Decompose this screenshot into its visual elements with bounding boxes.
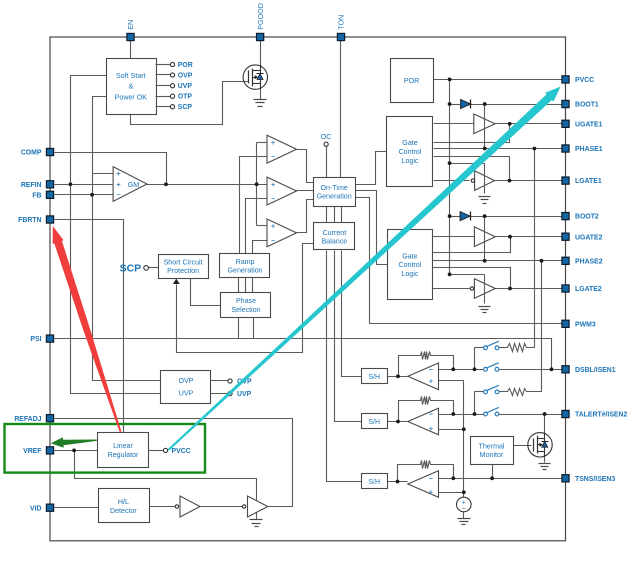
wire PVCC feed through LGATE1 driver to ground (484, 164, 486, 194)
pin PGOOD (257, 33, 264, 40)
svg-text:H/L: H/L (118, 498, 129, 506)
svg-text:Short Circuit: Short Circuit (164, 258, 203, 266)
svg-text:PVCC: PVCC (575, 77, 594, 84)
driver LGATE2 inverting (474, 279, 495, 299)
terminal OVP (156, 74, 171, 76)
wire COMP to GM output node (55, 153, 167, 185)
svg-text:UGATE2: UGATE2 (575, 234, 603, 241)
driver UGATE2 (474, 227, 495, 247)
block Thermal Monitor (471, 437, 514, 465)
svg-text:Linear: Linear (113, 442, 133, 450)
block Gate Control Logic U2 (388, 230, 433, 300)
wire UVP comparator output terminal (211, 393, 229, 395)
svg-text:−: − (429, 365, 434, 374)
switch ISEN2 branch (484, 390, 488, 394)
wire comparator1 output to On-Time Generation (297, 150, 314, 183)
op-amp GM error amplifier (113, 167, 147, 202)
wire comparator1 - to Ramp Generation (240, 157, 267, 254)
wire GCL2 to UGATE2 driver input (433, 236, 475, 238)
pin VID (46, 504, 53, 511)
switch ISEN1 branch (484, 346, 488, 350)
wire UGATE2 feedback to GCL2 (433, 237, 511, 253)
svg-text:S/H: S/H (368, 419, 380, 426)
junction dots (164, 182, 168, 186)
terminal OC (324, 142, 328, 146)
op-amp ISEN2 (408, 408, 439, 435)
wire MOSFET source to ground (260, 90, 262, 100)
wire S/H3 to Current Balance (327, 251, 362, 482)
wire LGATE1 driver output to LGATE1 pin (495, 180, 566, 182)
wire Linear Regulator PVCC output terminal (149, 450, 164, 452)
svg-text:Power OK: Power OK (115, 93, 148, 101)
svg-text:−: − (271, 154, 275, 161)
ground PGOOD MOSFET (254, 99, 267, 101)
wire diode D2 to BOOT2 pin (471, 216, 566, 218)
pin TSNS/ISEN3 (562, 475, 569, 482)
wire PVCC rail to diode D2 anode (450, 216, 461, 218)
driver LGATE1 inverting (475, 171, 495, 191)
wire On-Time output3 to PWM3 pin (356, 198, 566, 324)
wire ISEN2 + input on reference rail (439, 429, 464, 431)
wire SCP terminal to Short Circuit Protection (149, 267, 159, 269)
svg-text:OVP: OVP (178, 73, 193, 80)
svg-text:POR: POR (178, 62, 193, 69)
svg-text:Generation: Generation (317, 193, 352, 201)
wire On-Time output2 to Gate Control Logic 2 (356, 191, 388, 265)
svg-text:Generation: Generation (227, 267, 262, 275)
pin PHASE1 (562, 145, 569, 152)
svg-text:−: − (462, 506, 466, 513)
MOSFET Q2 thermal (528, 433, 552, 457)
wire op-amp2 feedback resistor loop (399, 401, 418, 422)
block Current Balance (314, 223, 355, 250)
pin EN (127, 33, 134, 40)
block Short Circuit Protection (159, 255, 209, 279)
wire On-Time Generation to Current Balance (326, 207, 328, 223)
terminal OVP output (228, 379, 232, 383)
wire EN pin to Soft Start box (130, 37, 132, 59)
svg-text:Current: Current (323, 229, 347, 237)
wire comparator2 - to Ramp Generation (246, 199, 267, 254)
svg-text:−: − (271, 196, 275, 203)
svg-text:−: − (271, 238, 275, 245)
wire op-amp1 feedback resistor loop (399, 356, 418, 377)
pin UGATE2 (562, 233, 569, 240)
pin LGATE2 (562, 285, 569, 292)
terminal SCP output (156, 106, 171, 108)
terminal SCP input (144, 266, 149, 271)
pin LGATE1 (562, 177, 569, 184)
wire Thermal Monitor to TSNS line (492, 465, 494, 479)
svg-text:PHASE2: PHASE2 (575, 258, 603, 265)
ground LGATE2 driver (479, 306, 491, 308)
ground thermal MOSFET (539, 463, 551, 465)
wire PHASE1 sense drop to ISEN1 resistor (530, 149, 535, 348)
block Ramp Generation (220, 254, 270, 278)
svg-text:Gate: Gate (402, 252, 417, 260)
svg-text:PSI: PSI (30, 336, 41, 343)
block H/L Detector (99, 489, 150, 523)
op-amp ISEN1 (408, 363, 439, 390)
ground reference source (458, 518, 471, 520)
wire op-amp3 output to S/H3 (387, 481, 408, 483)
svg-text:TON: TON (337, 15, 346, 30)
svg-text:−: − (429, 410, 434, 419)
wire UGATE2 driver output to UGATE2 pin (496, 236, 566, 238)
block POR (391, 59, 434, 103)
wire UGATE1 driver output to UGATE1 pin (495, 123, 566, 125)
driver UGATE1 (474, 114, 495, 134)
wire level shifter to ground (256, 513, 258, 520)
pin FBRTN (46, 216, 53, 223)
block Phase Selection (221, 293, 271, 318)
svg-text:BOOT1: BOOT1 (575, 102, 599, 109)
wire Short Circuit Protection to Phase Selection (191, 279, 221, 306)
wire op-amp1 output to S/H1 (387, 376, 408, 378)
wire S/H1 to Current Balance (342, 251, 362, 377)
pin PHASE2 (562, 257, 569, 264)
svg-text:−: − (429, 474, 434, 483)
pin FB (46, 191, 53, 198)
wire REFIN net vertical to Soft Start and OVP UVP (71, 76, 161, 394)
wire voltage source to ground (463, 512, 465, 519)
wire PVCC rail feed to LGATE1 driver (450, 163, 485, 165)
block Linear Regulator (98, 433, 149, 468)
block S/H 1 (362, 369, 388, 384)
wire GCL1 to LGATE1 driver input (434, 180, 470, 182)
wire ISEN3 + input on reference rail (439, 492, 464, 494)
svg-text:FBRTN: FBRTN (18, 217, 41, 224)
svg-text:Control: Control (399, 148, 422, 156)
svg-text:REFIN: REFIN (21, 182, 42, 189)
inverter 1 H/L chain (180, 496, 200, 517)
svg-text:Logic: Logic (401, 270, 418, 278)
svg-text:COMP: COMP (21, 150, 42, 157)
svg-text:Ramp: Ramp (236, 258, 255, 266)
wire LGATE1 feedback to GCL1 (434, 157, 510, 181)
wire PGOOD pin to MOSFET drain (260, 37, 262, 66)
svg-text:Selection: Selection (231, 306, 260, 314)
svg-text:+: + (116, 171, 120, 178)
svg-text:LGATE2: LGATE2 (575, 286, 602, 293)
green highlight rectangle VREF linear regulator (5, 424, 206, 473)
svg-text:Control: Control (398, 261, 421, 269)
MOSFET Q1 PGOOD open drain (243, 65, 267, 89)
wire TALERT node to thermal MOSFET drain (544, 415, 546, 433)
terminal PVCC linear regulator (163, 448, 167, 452)
pin REFADJ (46, 415, 53, 422)
wire Current Balance to SCP arrow loop (177, 244, 314, 353)
svg-text:UVP: UVP (237, 391, 252, 398)
block On-Time Generation (314, 178, 356, 207)
wire comparator3 - to Ramp Generation (253, 241, 267, 254)
wire PHASE2 sense drop to ISEN2 resistor (530, 261, 542, 392)
svg-text:On-Time: On-Time (320, 184, 347, 192)
svg-text:Protection: Protection (167, 267, 199, 275)
svg-text:Balance: Balance (322, 238, 348, 246)
comparator 1 (267, 135, 297, 163)
pin DSBL/ISEN1 (562, 366, 569, 373)
svg-text:REFADJ: REFADJ (14, 416, 41, 423)
wire ISEN2 switch branch (474, 392, 476, 415)
svg-text:Detector: Detector (110, 507, 137, 515)
svg-text:Soft Start: Soft Start (116, 72, 146, 80)
wire Soft Start to PGOOD MOSFET gate (131, 82, 249, 125)
wire OVP comparator output terminal (211, 380, 229, 382)
op-amp ISEN3 (408, 471, 439, 498)
wire FB net vertical to Soft Start, GM +, OVP UVP (93, 97, 161, 381)
svg-text:PHASE1: PHASE1 (575, 146, 603, 153)
svg-text:+: + (271, 224, 275, 231)
pin COMP (46, 148, 53, 155)
wire LGATE2 driver output to LGATE2 pin (496, 288, 566, 290)
pin PSI (46, 335, 53, 342)
wire PVCC rail vertical (450, 80, 485, 275)
svg-text:LGATE1: LGATE1 (575, 178, 602, 185)
wire POR output to PVCC pin (434, 79, 566, 81)
diode D1 BOOT1 (461, 100, 471, 109)
terminal UVP output (228, 392, 232, 396)
wire reference rail to voltage source (463, 381, 465, 498)
wire PVCC feed through LGATE2 driver to ground (484, 275, 486, 304)
wire VID to H/L Detector (55, 507, 99, 509)
wire comparator2 output to On-Time Generation (297, 190, 314, 192)
svg-text:EN: EN (126, 20, 135, 30)
svg-text:BOOT2: BOOT2 (575, 214, 599, 221)
svg-text:Monitor: Monitor (480, 451, 504, 459)
wire TON pin to On-Time Generation (340, 37, 342, 178)
wire LGATE2 feedback to GCL2 (433, 268, 511, 289)
svg-text:+: + (271, 140, 275, 147)
svg-text:VID: VID (30, 505, 42, 512)
svg-text:Thermal: Thermal (478, 442, 504, 450)
wire comparator3 output to On-Time Generation (297, 200, 314, 233)
svg-text:PGOOD: PGOOD (256, 3, 265, 30)
wire OC terminal to On-Time Generation (326, 147, 328, 178)
comparator 2 (267, 177, 297, 205)
svg-text:OC: OC (321, 132, 332, 141)
svg-text:Gate: Gate (402, 139, 417, 147)
inverter 2 level shifter (248, 496, 268, 517)
svg-text:UVP: UVP (179, 389, 194, 397)
wire PSI to DSBL/ISEN1 (55, 339, 552, 370)
block Soft Start Power OK (107, 59, 157, 115)
wire op-amp2 output to S/H2 (387, 421, 408, 423)
switch TALERT/ISEN2 line (484, 412, 488, 416)
red annotation arrow to FBRTN (53, 226, 122, 432)
svg-text:DSBL/ISEN1: DSBL/ISEN1 (575, 367, 616, 374)
wire GM output to comparators (147, 184, 267, 186)
pin UGATE1 (562, 120, 569, 127)
wire TSNS/ISEN3 line (439, 478, 566, 480)
svg-text:+: + (116, 182, 120, 189)
wire Thermal Monitor gate line (513, 445, 532, 447)
comparator 3 (267, 219, 297, 247)
wire thermal MOSFET source to ground (544, 457, 546, 463)
wire BOOT1 node through UGATE1 driver to PHASE1 (484, 105, 486, 149)
wire Phase Selection to PSI line left drop (238, 318, 240, 339)
svg-text:UVP: UVP (178, 83, 193, 90)
svg-text:VREF: VREF (23, 448, 41, 455)
svg-text:−: − (116, 192, 120, 199)
svg-text:TSNS/ISEN3: TSNS/ISEN3 (575, 476, 615, 483)
pin VREF (46, 447, 53, 454)
wire FBRTN to Linear Regulator (55, 220, 124, 433)
cyan annotation arrow to PVCC (168, 87, 561, 451)
pin BOOT1 (562, 100, 569, 107)
wire ISEN1 + input to reference rail (439, 380, 464, 382)
wire PHASE1 line (434, 148, 566, 150)
svg-text:TALERT#/ISEN2: TALERT#/ISEN2 (575, 412, 627, 419)
wire REFADJ to H/L detector chain output (55, 419, 293, 507)
wire FB to GM - input (55, 194, 114, 196)
wire PVCC rail to diode D1 anode (450, 104, 461, 106)
svg-text:OTP: OTP (178, 94, 193, 101)
green annotation arrow to VREF (51, 437, 97, 448)
wire REFIN to GM + input (55, 184, 114, 186)
svg-text:+: + (429, 488, 434, 497)
wire GCL1 to UGATE1 driver input (434, 123, 474, 125)
svg-text:+: + (429, 424, 434, 433)
wire GCL2 to LGATE2 driver input (433, 288, 470, 290)
svg-text:PVCC: PVCC (172, 448, 191, 455)
wire BOOT2 node through UGATE2 driver to PHASE2 (484, 217, 486, 261)
svg-text:FB: FB (32, 192, 41, 199)
block Gate Control Logic U1 (387, 117, 433, 187)
wire diode D1 to BOOT1 pin (471, 104, 566, 106)
block S/H 3 (362, 474, 388, 489)
svg-text:+: + (271, 182, 275, 189)
wire PHASE2 line (433, 260, 566, 262)
svg-text:GM: GM (128, 180, 140, 189)
block OVP UVP (161, 371, 211, 404)
svg-text:OVP: OVP (179, 377, 194, 385)
pin PWM3 (562, 320, 569, 327)
wire DSBL/ISEN1 line (439, 369, 484, 371)
wire Phase Selection to PSI line right drop (253, 318, 255, 339)
wire VREF to Linear Regulator (55, 450, 98, 452)
ground level shifter (250, 519, 263, 521)
terminal UVP (156, 85, 171, 87)
pin TALERT#/ISEN2 (562, 410, 569, 417)
svg-text:S/H: S/H (368, 479, 380, 486)
svg-text:S/H: S/H (368, 374, 380, 381)
terminal POR (156, 64, 171, 66)
svg-text:PWM3: PWM3 (575, 321, 596, 328)
wire inverter 1 to inverter 2 (201, 506, 243, 508)
wire VREF node to level shifter (75, 451, 257, 501)
wire UGATE1 feedback to GCL1 (434, 124, 510, 143)
wire H/L Detector to inverter 1 (149, 506, 175, 508)
pin REFIN (46, 181, 53, 188)
svg-text:SCP: SCP (178, 104, 193, 111)
wire On-Time output1 to Gate Control Logic 1 (356, 152, 387, 185)
terminal OTP (156, 96, 171, 98)
svg-text:+: + (429, 377, 434, 386)
switch DSBL/ISEN1 line (484, 367, 488, 371)
svg-text:UGATE1: UGATE1 (575, 121, 603, 128)
IC boundary box (50, 37, 566, 541)
wire Ramp Generation to Phase Selection (238, 278, 240, 293)
pin TON (337, 33, 344, 40)
svg-text:POR: POR (404, 77, 419, 85)
svg-text:&: & (128, 83, 133, 91)
pin PVCC (562, 76, 569, 83)
voltage source reference (457, 497, 472, 512)
svg-text:SCP: SCP (120, 263, 142, 275)
diode D2 BOOT2 (460, 212, 470, 221)
wire S/H2 to Current Balance (335, 251, 362, 422)
pin BOOT2 (562, 213, 569, 220)
svg-text:Regulator: Regulator (108, 451, 139, 459)
svg-text:Phase: Phase (236, 297, 256, 305)
ground LGATE1 driver (479, 196, 491, 198)
wire op-amp3 feedback resistor loop (398, 465, 418, 482)
svg-text:Logic: Logic (402, 157, 419, 165)
block S/H 2 (362, 414, 388, 429)
wire ISEN1 switch branch (474, 348, 476, 370)
wire TALERT#/ISEN2 line (439, 414, 484, 416)
wire comparator + rail (256, 143, 258, 226)
